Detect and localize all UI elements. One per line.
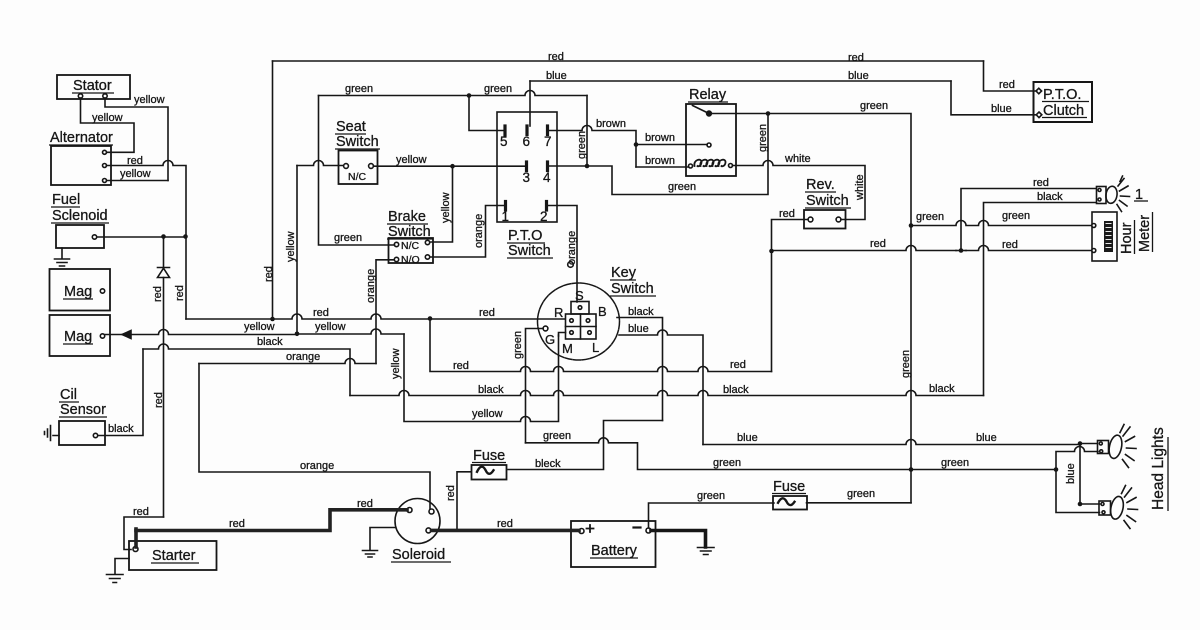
fuel solenoid terminal bbox=[92, 235, 96, 239]
svg-text:green: green bbox=[334, 232, 362, 244]
headlight lamp 1 rays bbox=[1117, 176, 1130, 212]
svg-text:orange: orange bbox=[286, 351, 320, 363]
underline Fuse 1 bbox=[472, 462, 506, 464]
svg-text:Sensor: Sensor bbox=[60, 402, 106, 418]
underline Seat bbox=[335, 133, 366, 135]
svg-text:Cil: Cil bbox=[60, 387, 77, 403]
oil sensor ground (left facing) bbox=[45, 426, 60, 441]
svg-text:red: red bbox=[730, 359, 746, 371]
svg-text:red: red bbox=[999, 79, 1015, 91]
junction dot yellow seat bbox=[450, 164, 455, 169]
svg-text:red: red bbox=[497, 518, 513, 530]
wire yellow seat switch left bbox=[297, 161, 344, 166]
svg-text:6: 6 bbox=[523, 134, 531, 149]
svg-text:green: green bbox=[576, 131, 588, 159]
key switch L contact bbox=[588, 331, 592, 335]
oil sensor box bbox=[59, 421, 105, 445]
PTO switch pin 7 bbox=[546, 126, 549, 135]
svg-text:blue: blue bbox=[737, 432, 758, 444]
wire red fuse 1 left bbox=[457, 472, 471, 529]
svg-text:Head Lights: Head Lights bbox=[1150, 427, 1167, 510]
PTO switch pin 5 bbox=[503, 126, 506, 135]
svg-text:red: red bbox=[848, 52, 864, 64]
key switch B contact bbox=[586, 319, 590, 323]
stator box bbox=[57, 75, 130, 99]
junction dot green headlight bus bbox=[909, 467, 914, 472]
wire red diode branch bbox=[163, 237, 165, 518]
svg-text:red: red bbox=[870, 238, 886, 250]
underline Alternator bbox=[49, 144, 113, 146]
wire fuel solenoid feed bbox=[97, 236, 186, 238]
svg-text:1: 1 bbox=[502, 209, 510, 224]
wire white relay coil to rev switch bbox=[733, 161, 866, 220]
key switch S contact dot bbox=[578, 306, 582, 310]
svg-text:yellow: yellow bbox=[396, 154, 427, 166]
junction dot blue headlight bottom bbox=[1078, 502, 1083, 507]
underline Rev. bbox=[805, 191, 836, 193]
PTO clutch terminal bottom bbox=[1036, 112, 1042, 118]
brake switch NO contact right bbox=[425, 255, 429, 259]
svg-text:P.T.O.: P.T.O. bbox=[1043, 87, 1081, 103]
wire red vertical from top bus bbox=[272, 61, 274, 319]
svg-text:yellow: yellow bbox=[244, 321, 275, 333]
svg-text:yellow: yellow bbox=[315, 321, 346, 333]
fuse 1 box bbox=[472, 465, 507, 480]
PTO clutch terminal top bbox=[1036, 88, 1042, 94]
svg-text:Fuse: Fuse bbox=[773, 479, 805, 495]
svg-text:green: green bbox=[1002, 210, 1030, 222]
wire yellow key M stub bbox=[559, 333, 566, 337]
svg-text:Key: Key bbox=[611, 265, 637, 281]
starter ground bbox=[107, 559, 130, 583]
svg-text:green: green bbox=[697, 490, 725, 502]
key switch block dividers bbox=[566, 314, 597, 339]
svg-text:green: green bbox=[847, 488, 875, 500]
svg-text:4: 4 bbox=[543, 170, 551, 185]
underline Fuel bbox=[51, 206, 80, 208]
solenoid terminal right-top bbox=[429, 509, 434, 514]
svg-text:Meter: Meter bbox=[1137, 215, 1153, 252]
wire blue drop to pin 6 bbox=[529, 81, 531, 126]
svg-text:red: red bbox=[1002, 239, 1018, 251]
svg-text:L: L bbox=[592, 340, 599, 355]
svg-text:R: R bbox=[554, 305, 563, 320]
headlight lamp 4 connector bbox=[1099, 501, 1111, 515]
brake switch NC contact right bbox=[425, 240, 429, 244]
hour meter box bbox=[1092, 212, 1117, 261]
underline Sclenoid bbox=[51, 222, 109, 224]
wire red hour meter junction segment bbox=[956, 250, 966, 252]
relay coil end left bbox=[689, 164, 693, 168]
brake switch NO contact left bbox=[394, 257, 398, 261]
wire yellow seat switch right bbox=[374, 165, 525, 167]
alternator terminal 2 bbox=[103, 164, 107, 168]
junction dot red headlight bbox=[959, 248, 964, 253]
underline Head Lights bbox=[1167, 437, 1169, 511]
battery plus terminal bbox=[579, 529, 584, 534]
svg-text:black: black bbox=[1037, 191, 1063, 203]
wire blue headlight drop bbox=[1080, 444, 1100, 505]
svg-text:Switch: Switch bbox=[336, 134, 379, 150]
key switch S wire terminal circle bbox=[568, 262, 574, 268]
svg-text:black: black bbox=[628, 306, 654, 318]
battery ground cable bbox=[651, 531, 706, 548]
wire green key G bbox=[526, 329, 544, 443]
alternator terminal 3 bbox=[103, 179, 107, 183]
junction dot red rev bbox=[769, 249, 774, 254]
wire green relay to right bus bbox=[711, 114, 911, 503]
relay coil loops bbox=[694, 160, 725, 167]
wire brown pin 7 to relay bbox=[550, 126, 708, 168]
underline Brake Switch bbox=[387, 238, 433, 240]
svg-text:Sclenoid: Sclenoid bbox=[52, 208, 108, 224]
wire black oil sensor riser bbox=[98, 349, 143, 436]
svg-text:green: green bbox=[941, 457, 969, 469]
svg-text:yellow: yellow bbox=[92, 112, 123, 124]
svg-text:blue: blue bbox=[546, 70, 567, 82]
key switch G terminal bbox=[543, 326, 548, 331]
wire green drop to pin 6 area corner bbox=[586, 96, 588, 167]
svg-text:red: red bbox=[263, 266, 275, 282]
rev switch contact left bbox=[808, 217, 813, 222]
headlight lamp 4 rays bbox=[1122, 486, 1138, 529]
hour meter display bbox=[1104, 221, 1113, 252]
wire blue to headlights bbox=[703, 440, 1080, 445]
underline P.T.O. clutch bbox=[1042, 101, 1089, 103]
svg-text:yellow: yellow bbox=[472, 408, 503, 420]
relay box bbox=[686, 104, 736, 176]
svg-text:white: white bbox=[854, 174, 866, 201]
junction dot fuel solenoid right bbox=[183, 234, 188, 239]
mag 1 terminal bbox=[100, 289, 104, 293]
svg-text:Stator: Stator bbox=[73, 78, 112, 94]
junction dot red bus bbox=[270, 317, 275, 322]
solenoid ground bbox=[363, 528, 396, 558]
diode D1 bbox=[158, 268, 170, 278]
hour meter terminal top bbox=[1092, 224, 1096, 228]
wire yellow seat to brake drop bbox=[431, 166, 453, 242]
PTO switch pin 1 bbox=[504, 202, 507, 211]
wire green stub to pin 5 bbox=[469, 96, 503, 131]
svg-text:red: red bbox=[313, 307, 329, 319]
wire yellow seat left drop to yellow bus bbox=[296, 166, 298, 334]
solenoid terminal output bbox=[426, 528, 431, 533]
underline Cil bbox=[59, 401, 79, 403]
key switch R contact bbox=[570, 319, 574, 323]
headlight lamp 4 lens bbox=[1109, 495, 1126, 520]
svg-text:Seat: Seat bbox=[336, 119, 366, 135]
headlight lamp 2 lens bbox=[1107, 434, 1124, 460]
wire green headlight branch down bbox=[1056, 470, 1100, 513]
svg-text:Starter: Starter bbox=[152, 548, 196, 564]
headlight lamp 2 rays bbox=[1120, 425, 1136, 468]
rev switch box bbox=[804, 210, 846, 229]
wire orange drop to solenoid run bbox=[199, 364, 430, 510]
svg-text:red: red bbox=[548, 51, 564, 63]
svg-text:red: red bbox=[357, 498, 373, 510]
svg-text:black: black bbox=[108, 423, 134, 435]
fuse 2 element bbox=[778, 498, 795, 505]
underline Seat Switch bbox=[335, 148, 380, 150]
junction dot green hour meter bbox=[909, 223, 914, 228]
thick red cable starter to solenoid bbox=[136, 510, 407, 531]
PTO switch box bbox=[497, 112, 557, 222]
fuse 2 box bbox=[773, 496, 807, 510]
battery box bbox=[571, 521, 656, 567]
svg-text:green: green bbox=[345, 83, 373, 95]
svg-text:red: red bbox=[479, 307, 495, 319]
svg-text:Brake: Brake bbox=[388, 209, 426, 225]
svg-text:P.T.O: P.T.O bbox=[508, 228, 542, 244]
svg-text:Relay: Relay bbox=[689, 87, 727, 103]
key switch S contact box bbox=[571, 302, 589, 315]
wire black long bus bbox=[350, 391, 984, 396]
mag 2 terminal bbox=[100, 334, 104, 338]
mag 1 box bbox=[50, 269, 111, 311]
svg-text:N/C: N/C bbox=[401, 240, 420, 252]
wire red to hour meter bbox=[772, 246, 1092, 251]
starter box bbox=[129, 541, 217, 570]
thick red cable starter drop bbox=[134, 529, 138, 547]
hour meter display digits bbox=[1106, 224, 1111, 248]
battery ground symbol bbox=[698, 548, 715, 555]
svg-text:black: black bbox=[257, 336, 283, 348]
wire red main bus top bbox=[273, 60, 984, 62]
wire blue drop to PTO clutch bbox=[951, 81, 1036, 115]
svg-text:yellow: yellow bbox=[390, 348, 402, 379]
underline headlight 1 bbox=[1134, 200, 1148, 202]
PTO switch pin 3 bbox=[525, 162, 528, 171]
svg-text:orange: orange bbox=[365, 269, 377, 303]
svg-text:brown: brown bbox=[645, 155, 675, 167]
underline Soleroid bbox=[391, 561, 451, 563]
svg-text:red: red bbox=[133, 506, 149, 518]
svg-text:blue: blue bbox=[991, 103, 1012, 115]
svg-text:green: green bbox=[713, 457, 741, 469]
svg-text:yellow: yellow bbox=[134, 94, 165, 106]
svg-text:blue: blue bbox=[848, 70, 869, 82]
wire red bus drop to PTO clutch bbox=[984, 61, 1036, 91]
wire green vertical seat feed bbox=[319, 96, 395, 246]
junction dot fuel solenoid left bbox=[161, 234, 166, 239]
wire yellow stator right bbox=[105, 98, 168, 181]
underline Mag 2 bbox=[63, 343, 93, 345]
headlight lamp 2 contact dots bbox=[1099, 442, 1102, 445]
alternator box bbox=[51, 146, 111, 185]
svg-text:bleck: bleck bbox=[535, 458, 561, 470]
underline Stator bbox=[72, 92, 114, 94]
svg-text:blue: blue bbox=[628, 323, 649, 335]
wire blue key L bbox=[619, 330, 703, 445]
relay common pin dot bbox=[707, 111, 712, 116]
wire green to hour meter bbox=[911, 221, 1092, 226]
PTO switch pin 2 bbox=[545, 202, 548, 211]
PTO switch pin 6 bbox=[525, 126, 528, 135]
wire green top left bbox=[319, 91, 588, 96]
svg-text:N/C: N/C bbox=[348, 171, 367, 183]
wire red key run lower bbox=[430, 319, 772, 372]
wire red alternator to junction bbox=[107, 161, 187, 319]
underline Rev Switch bbox=[805, 207, 851, 209]
battery plus sign bbox=[587, 525, 594, 532]
svg-text:Battery: Battery bbox=[591, 543, 638, 559]
wire orange horizontal lower bbox=[199, 359, 376, 364]
svg-text:G: G bbox=[545, 332, 555, 347]
seat switch contact right bbox=[369, 164, 374, 169]
svg-text:yellow: yellow bbox=[120, 168, 151, 180]
svg-text:red: red bbox=[779, 208, 795, 220]
wire green fuse 2 right bbox=[807, 502, 912, 504]
svg-text:Mag: Mag bbox=[64, 329, 92, 345]
stator terminal pin right bbox=[103, 94, 107, 98]
solenoid terminal left bbox=[407, 508, 412, 513]
wire red rev switch left bbox=[772, 220, 809, 372]
junction dot green headlight branch bbox=[1054, 467, 1059, 472]
wire blue bus top bbox=[530, 80, 951, 82]
svg-text:orange: orange bbox=[566, 231, 578, 265]
key switch M contact bbox=[570, 331, 574, 335]
svg-text:M: M bbox=[562, 341, 573, 356]
battery minus terminal bbox=[646, 528, 651, 533]
junction dot green pin4 bbox=[585, 164, 590, 169]
svg-text:7: 7 bbox=[544, 134, 552, 149]
thick red cable solenoid to battery bbox=[432, 529, 580, 533]
seat switch contact left bbox=[344, 164, 349, 169]
brake switch box bbox=[389, 238, 434, 263]
headlight lamp 2 connector bbox=[1098, 441, 1109, 454]
wire black key B bbox=[617, 318, 663, 421]
svg-text:green: green bbox=[484, 83, 512, 95]
svg-text:green: green bbox=[916, 211, 944, 223]
yellow bus arrowhead at mag 2 bbox=[122, 331, 131, 339]
underline Clutch bbox=[1042, 117, 1087, 119]
svg-text:yellow: yellow bbox=[440, 192, 452, 223]
svg-text:Fuse: Fuse bbox=[473, 448, 505, 464]
svg-text:red: red bbox=[152, 286, 164, 302]
underline P.T.O bbox=[507, 242, 545, 244]
svg-text:black: black bbox=[929, 383, 955, 395]
svg-text:Mag: Mag bbox=[64, 284, 92, 300]
svg-text:B: B bbox=[598, 304, 607, 319]
svg-text:red: red bbox=[127, 155, 143, 167]
wire green pin 4 to relay lower bbox=[550, 114, 769, 195]
wire yellow stator left to alternator bbox=[81, 98, 135, 152]
headlight lamp 1 connector bbox=[1097, 187, 1107, 204]
headlight lamp 4 contact dots bbox=[1101, 503, 1104, 506]
svg-text:Alternator: Alternator bbox=[50, 130, 113, 146]
svg-text:green: green bbox=[860, 100, 888, 112]
svg-text:green: green bbox=[900, 350, 912, 378]
wire green battery to fuse 2 bbox=[649, 503, 775, 528]
stator terminal pin left bbox=[78, 94, 82, 98]
underline Relay bbox=[688, 101, 728, 103]
wire red to starter bbox=[124, 517, 164, 550]
svg-text:green: green bbox=[512, 331, 524, 359]
relay NO pin bbox=[707, 143, 711, 147]
relay switch arm bbox=[693, 106, 708, 113]
key switch contact block bbox=[566, 314, 597, 339]
hour meter terminal bottom bbox=[1092, 249, 1096, 253]
wire yellow mag bus bbox=[105, 329, 404, 335]
underline Key Switch bbox=[610, 295, 656, 297]
svg-text:S: S bbox=[575, 288, 584, 303]
svg-text:black: black bbox=[723, 384, 749, 396]
svg-text:green: green bbox=[757, 124, 769, 152]
svg-text:Fuel: Fuel bbox=[52, 192, 80, 208]
svg-text:Rev.: Rev. bbox=[806, 177, 835, 193]
wire black key B lower jog bbox=[508, 421, 663, 470]
svg-text:Switch: Switch bbox=[611, 281, 654, 297]
svg-text:Switch: Switch bbox=[508, 243, 551, 259]
junction dot blue headlight top bbox=[1078, 441, 1083, 446]
svg-text:Hour: Hour bbox=[1119, 222, 1135, 254]
wire red main middle bbox=[186, 314, 565, 319]
junction dot brown relay bbox=[634, 142, 639, 147]
wire blue headlight feed label segment none bbox=[1080, 443, 1097, 445]
underline Mag 1 bbox=[63, 298, 93, 300]
oil sensor terminal bbox=[93, 433, 97, 437]
mag 2 box bbox=[50, 315, 111, 356]
wire yellow alternator bottom bbox=[107, 180, 168, 182]
underline Battery bbox=[590, 557, 638, 559]
battery minus sign bbox=[634, 526, 641, 528]
svg-text:brown: brown bbox=[645, 132, 675, 144]
headlight lamp 1 lens bbox=[1105, 186, 1118, 205]
wire red headlight 1 bbox=[961, 189, 1096, 251]
svg-text:red: red bbox=[229, 518, 245, 530]
solenoid body circle bbox=[395, 499, 440, 544]
junction dot red key branch bbox=[428, 316, 433, 321]
ground below fuel solenoid bbox=[55, 248, 70, 266]
wire green to headlights bbox=[526, 438, 1057, 470]
svg-text:green: green bbox=[668, 181, 696, 193]
key switch body circle bbox=[538, 283, 620, 360]
underline Sensor bbox=[59, 416, 107, 418]
wire green headlight branch up bbox=[1056, 447, 1098, 470]
svg-text:Soleroid: Soleroid bbox=[392, 547, 445, 563]
svg-text:blue: blue bbox=[976, 432, 997, 444]
svg-text:2: 2 bbox=[540, 209, 548, 224]
svg-text:Switch: Switch bbox=[806, 193, 849, 209]
fuse 1 element bbox=[477, 467, 494, 474]
alternator terminal 1 bbox=[103, 150, 107, 154]
wire orange PTO pin 2 to key S bbox=[549, 206, 578, 303]
wire orange brake NO left leg bbox=[376, 260, 394, 364]
svg-text:red: red bbox=[174, 285, 186, 301]
rev switch contact right bbox=[836, 217, 841, 222]
svg-text:orange: orange bbox=[300, 460, 334, 472]
fuel solenoid box bbox=[56, 225, 104, 248]
svg-text:N/O: N/O bbox=[401, 254, 420, 266]
PTO switch pin 4 bbox=[546, 162, 549, 171]
underline PTO Switch bbox=[507, 257, 553, 259]
svg-text:green: green bbox=[543, 430, 571, 442]
svg-text:red: red bbox=[153, 392, 165, 408]
underline Key bbox=[610, 279, 636, 281]
underline Starter bbox=[151, 562, 199, 564]
relay coil end right bbox=[729, 164, 733, 168]
svg-text:5: 5 bbox=[500, 134, 508, 149]
svg-text:Clutch: Clutch bbox=[1043, 103, 1084, 119]
svg-text:Switch: Switch bbox=[388, 224, 431, 240]
underline Fuse 2 bbox=[772, 493, 806, 495]
svg-text:red: red bbox=[1033, 177, 1049, 189]
junction dot yellow bus bbox=[295, 332, 300, 337]
headlight lamp 1 contact dots bbox=[1098, 189, 1101, 192]
svg-text:white: white bbox=[784, 153, 811, 165]
svg-text:brown: brown bbox=[596, 118, 626, 130]
wire yellow drop to key M run bbox=[404, 334, 559, 422]
